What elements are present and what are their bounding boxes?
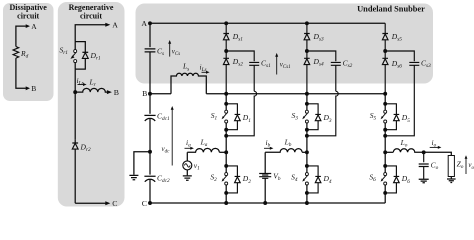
transistor switch S1: [222, 104, 228, 130]
junction rail C Vb: [263, 201, 267, 205]
node A junction: [148, 21, 152, 25]
junction pair S3 top: [305, 102, 309, 106]
wire leg 56 upper: [384, 94, 386, 104]
arrow vCs: [168, 40, 171, 57]
label io: [430, 138, 442, 149]
wire Cs1 hop over rail B: [226, 91, 256, 136]
diode Ds1: [223, 23, 229, 51]
svg-text:Undeland Snubber: Undeland Snubber: [357, 4, 425, 13]
svg-text:S6: S6: [369, 173, 376, 184]
diode D4: [307, 166, 321, 193]
svg-text:v1: v1: [194, 161, 200, 172]
svg-text:vo: vo: [468, 161, 474, 171]
wire midpoint to ground: [134, 152, 150, 175]
wire leg 56 mid2: [384, 136, 386, 153]
wire leg 34 mid1: [306, 130, 308, 136]
label ib: [264, 138, 273, 150]
wire rail B right: [206, 93, 385, 95]
svg-text:Cdc1: Cdc1: [157, 111, 170, 122]
dissipative circuit box: [3, 3, 54, 101]
resistor Rd: [13, 47, 19, 59]
junction pair S2 top: [224, 164, 228, 168]
junction pair S6 top: [383, 164, 387, 168]
diode Dr2: [72, 140, 78, 203]
title Dissipative circuit: [10, 3, 48, 21]
diode Dr1: [75, 42, 88, 70]
wire left bus upper: [149, 23, 151, 47]
diode D5: [385, 104, 399, 130]
capacitor Cs: [145, 49, 156, 94]
junction pair S1 bottom: [224, 128, 228, 132]
svg-text:B: B: [114, 88, 119, 97]
svg-text:B: B: [31, 84, 36, 93]
node snubber tap leg 56: [383, 134, 387, 138]
wire leg 34 lower: [306, 193, 308, 203]
diode D1: [226, 104, 240, 130]
junction pair S1 top: [224, 102, 228, 106]
capacitor Cdc1: [144, 115, 155, 151]
svg-text:S4: S4: [291, 173, 298, 184]
Undeland Snubber box: [136, 4, 434, 84]
diode Ds3: [304, 23, 310, 51]
svg-text:C: C: [112, 199, 117, 208]
capacitor Cs3: [385, 51, 419, 136]
node snubber tap leg 34: [305, 134, 309, 138]
junction pair S5 bottom: [383, 128, 387, 132]
label iLs: [200, 63, 210, 74]
wire leg 56 mid1: [384, 130, 386, 136]
junction Ds1-Ds2: [224, 49, 228, 53]
node phase output leg 56: [383, 150, 387, 154]
wire dissipative top to node A: [16, 24, 30, 46]
node phase output leg 12: [224, 150, 228, 154]
wire Cs2 hop over rail B: [307, 91, 338, 136]
junction rail A leg A: [224, 21, 228, 25]
wire leg 34 upper: [306, 94, 308, 104]
svg-text:B: B: [142, 89, 147, 98]
node C junction: [148, 201, 152, 205]
svg-text:Lb: Lb: [284, 138, 292, 149]
wire to node B (regenerative): [107, 90, 112, 94]
junction Ds3-Ds4: [305, 49, 309, 53]
wire left bus lower: [149, 94, 151, 114]
arrow vdc: [171, 106, 174, 166]
arrow vCs1: [275, 53, 278, 75]
inductor La: [187, 148, 219, 152]
junction pair S2 bottom: [224, 191, 228, 195]
wire dissipative bottom to node B: [16, 58, 30, 90]
label ia: [185, 138, 194, 150]
junction pair S4 bottom: [305, 191, 309, 195]
svg-text:S2: S2: [210, 173, 217, 184]
junction rail A leg B: [305, 21, 309, 25]
diode Ds5: [382, 23, 388, 51]
wire regenerative lower: [74, 92, 76, 140]
wire regenerative bottom to node C: [75, 201, 110, 205]
svg-text:A: A: [112, 20, 118, 29]
impedance Zo: [448, 156, 454, 179]
arrow vo: [465, 155, 468, 174]
junction rail C leg 12: [224, 201, 228, 205]
title Undeland Snubber: [357, 4, 425, 13]
transistor switch S6: [381, 166, 387, 193]
label iLr: [77, 76, 87, 87]
ground (DC midpoint): [129, 175, 138, 179]
wire leg 34 mid3: [306, 152, 308, 166]
wire leg 34 mid2: [306, 136, 308, 153]
svg-text:D1: D1: [242, 113, 251, 124]
svg-text:D6: D6: [401, 174, 410, 185]
wire regenerative mid: [74, 69, 76, 92]
svg-text:Vb: Vb: [273, 172, 281, 183]
node DC midpoint: [148, 150, 152, 154]
svg-text:D2: D2: [242, 174, 251, 185]
svg-text:D4: D4: [323, 174, 332, 185]
wire regenerative to node A: [75, 23, 110, 42]
switch Sr1: [70, 42, 76, 70]
junction rail C leg 34: [305, 201, 309, 205]
wire phase C to load: [385, 151, 393, 153]
inductor Lb: [265, 149, 302, 153]
ground under v1: [183, 176, 192, 180]
svg-text:C: C: [142, 199, 147, 208]
node snubber tap leg 12: [224, 134, 228, 138]
wire rail A: [150, 22, 385, 24]
junction rail B leg A: [224, 92, 228, 96]
svg-text:io: io: [432, 138, 437, 149]
capacitor Cs2: [307, 51, 341, 91]
inductor Lo: [393, 149, 423, 153]
junction pair S5 top: [383, 102, 387, 106]
node B junction: [148, 92, 152, 96]
junction pair S4 top: [305, 164, 309, 168]
wire leg 12 lower: [225, 193, 227, 203]
diode D2: [226, 166, 240, 193]
junction pair S6 bottom: [383, 191, 387, 195]
source Vb battery: [259, 152, 271, 203]
wire leg 12 mid2: [225, 136, 227, 153]
svg-text:S1: S1: [211, 111, 218, 122]
svg-text:S5: S5: [370, 111, 377, 122]
regenerative circuit box: [58, 2, 125, 207]
ground under Co: [419, 179, 429, 183]
wire rail B left: [150, 93, 171, 95]
svg-text:A: A: [141, 19, 147, 28]
source v1: [183, 152, 192, 175]
junction rail B leg C: [383, 92, 387, 96]
wire load line right: [424, 152, 452, 155]
node phase output leg 34: [305, 150, 309, 154]
junction pair S3 bottom: [305, 128, 309, 132]
diode Ds4: [304, 51, 310, 94]
transistor switch S3: [302, 104, 308, 130]
diode D3: [307, 104, 321, 130]
svg-text:Lo: Lo: [400, 138, 408, 149]
ground under Zo: [447, 179, 456, 183]
svg-text:D3: D3: [323, 113, 332, 124]
capacitor Cs1: [226, 51, 259, 91]
wire leg 12 mid1: [225, 130, 227, 136]
wire rail C: [150, 202, 385, 204]
svg-text:D5: D5: [401, 113, 410, 124]
svg-text:A: A: [31, 22, 37, 31]
node Co tap: [422, 150, 426, 154]
capacitor Cdc2: [144, 152, 155, 203]
svg-text:S3: S3: [291, 111, 298, 122]
node junction regenerative: [73, 90, 77, 94]
transistor switch S2: [222, 166, 228, 193]
svg-text:La: La: [200, 138, 208, 149]
title Regenerative circuit: [69, 3, 114, 21]
transistor switch S5: [381, 104, 387, 130]
svg-text:circuit: circuit: [80, 12, 102, 21]
wire leg 12 upper: [225, 94, 227, 104]
svg-text:circuit: circuit: [17, 12, 39, 21]
inductor Lr: [75, 88, 107, 92]
wire leg 56 mid3: [384, 152, 386, 166]
junction rail B leg B: [305, 92, 309, 96]
wire phase A to load: [219, 151, 226, 153]
wire phase B to load: [302, 151, 307, 153]
junction Ds5-Ds6: [383, 49, 387, 53]
wire leg 56 lower: [384, 193, 386, 203]
svg-text:Zo: Zo: [457, 160, 464, 171]
svg-text:Cdc2: Cdc2: [157, 173, 170, 184]
capacitor Co: [419, 152, 429, 179]
diode Ds2: [223, 51, 229, 94]
diode Ds6: [382, 51, 388, 94]
transistor switch S4: [302, 166, 308, 193]
wire leg 12 mid3: [225, 152, 227, 166]
svg-text:Co: Co: [431, 160, 439, 171]
svg-text:vdc: vdc: [162, 145, 171, 155]
inductor Ls: [171, 73, 206, 93]
diode D6: [385, 166, 399, 193]
